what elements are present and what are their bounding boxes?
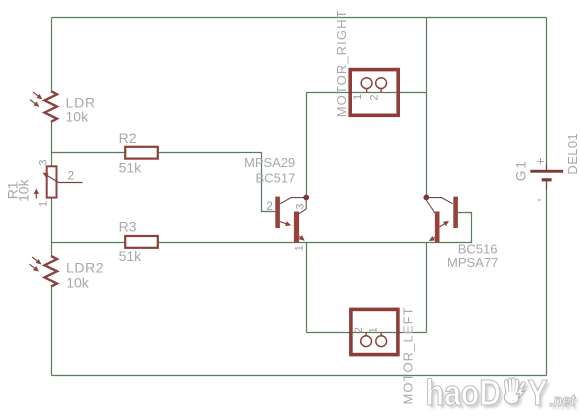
LDR2 light arrow 1	[32, 257, 41, 264]
svg-text:2: 2	[266, 199, 273, 213]
connector MOTOR_LEFT box	[351, 309, 398, 354]
svg-text:2: 2	[353, 327, 365, 333]
battery G1 long plate	[530, 170, 563, 173]
Q2 link node to base bar	[429, 198, 453, 204]
MOTOR_RIGHT pin 2 circle	[376, 78, 387, 89]
svg-text:1: 1	[37, 201, 49, 207]
potentiometer R1 pin 2 lead	[59, 182, 83, 184]
resistor LDR (zigzag)	[45, 91, 58, 122]
svg-text:1: 1	[352, 94, 364, 100]
svg-text:LDR2: LDR2	[66, 259, 104, 275]
svg-text:MOTOR_RIGHT: MOTOR_RIGHT	[334, 9, 349, 117]
watermark hand fingers outline pass	[506, 380, 524, 395]
Q2 inner emitter arrow	[440, 221, 449, 227]
wire node R1/LDR2 to R3	[52, 242, 126, 244]
wire left rail: LDR2 to bottom rail	[51, 287, 53, 376]
MOTOR_LEFT pin 1 stub	[380, 332, 382, 336]
pin number labels	[37, 94, 380, 333]
svg-text:2: 2	[68, 169, 75, 183]
wire left rail: top to LDR	[51, 18, 53, 92]
Q2 junction dot	[423, 195, 429, 201]
LDR light arrow 1	[33, 92, 42, 99]
MOTOR_RIGHT pin 1 circle	[361, 78, 372, 89]
svg-text:G1: G1	[512, 159, 528, 181]
wire left rail: pot R1 to LDR2	[51, 198, 53, 256]
wire node LDR/R1 to R2	[52, 152, 126, 154]
svg-text:haoD: haoD	[426, 374, 502, 414]
Q1 collector junction dot	[303, 195, 309, 201]
svg-text:MPSA29: MPSA29	[244, 155, 295, 170]
Q1 emitter arrow	[299, 236, 304, 240]
MOTOR_RIGHT pin 1 stub	[366, 89, 368, 93]
watermark haoDY.net	[426, 374, 579, 416]
svg-text:51k: 51k	[119, 248, 143, 264]
Q2 second bar (left)	[435, 212, 440, 243]
MOTOR_LEFT pin 2 stub	[365, 332, 367, 336]
svg-text:-: -	[537, 191, 541, 206]
wire motor-left horizontal	[307, 332, 427, 334]
MOTOR_LEFT pin 1 circle	[376, 336, 387, 347]
watermark hand palm	[504, 391, 519, 404]
wire left rail: LDR to pot R1	[51, 122, 53, 167]
svg-text:R2: R2	[119, 130, 137, 146]
potentiometer R1 wiper diagonal arrow	[44, 173, 59, 182]
svg-text:3: 3	[37, 159, 49, 165]
resistor LDR2 (zigzag)	[45, 256, 58, 287]
Q1 base bar	[275, 197, 280, 228]
svg-text:.net: .net	[550, 392, 576, 410]
LDR2 light arrow 2	[30, 264, 39, 271]
watermark hand palm refill	[505, 391, 518, 403]
Q1 second bar	[294, 212, 299, 243]
wire Q2 node down to motor-left	[426, 243, 428, 333]
Q1 inner emitter arrow	[280, 222, 290, 226]
svg-text:1: 1	[294, 245, 306, 251]
battery G1 short plate	[542, 178, 552, 181]
resistor R3 body	[125, 236, 158, 248]
svg-text:3: 3	[295, 203, 307, 209]
LDR light arrow 2	[30, 100, 39, 107]
resistor R2 body	[125, 147, 158, 159]
wire top rail	[52, 17, 547, 19]
wire motor-right horizontal	[307, 92, 427, 94]
wire right rail lower (battery -)	[546, 189, 548, 376]
wire top rail to Q2 vertical	[426, 18, 428, 196]
wire bottom rail	[52, 375, 547, 377]
Q2 base bar (right)	[453, 197, 458, 228]
svg-text:Y: Y	[528, 374, 548, 414]
Q1 node link down to second bar	[299, 200, 306, 214]
svg-text:10k: 10k	[66, 109, 90, 125]
svg-text:DEL01: DEL01	[565, 133, 580, 175]
wire right rail upper (battery +)	[546, 18, 548, 164]
svg-text:MOTOR_LEFT: MOTOR_LEFT	[401, 306, 416, 404]
Q2 emitter arrow	[430, 237, 435, 240]
potentiometer R1 body	[47, 166, 57, 197]
wire Q1 emitter down to motor-left	[306, 243, 308, 333]
MOTOR_LEFT pin 2 circle	[361, 336, 372, 347]
wires group	[52, 18, 547, 376]
svg-text:+: +	[537, 153, 545, 168]
svg-text:MPSA77: MPSA77	[447, 255, 498, 270]
wire R2 to Q1 base (elbow)	[158, 153, 275, 212]
svg-text:R3: R3	[119, 219, 137, 235]
connector MOTOR_RIGHT box	[350, 70, 398, 116]
wire Q1 collector vertical	[306, 93, 308, 196]
svg-text:10k: 10k	[66, 274, 90, 290]
potentiometer R1 up arrow	[35, 190, 37, 199]
wire R3 to Q2 base (long horizontal)	[158, 213, 472, 243]
Q1 collector link to node	[280, 198, 304, 204]
watermark hand fingers white pass	[506, 380, 524, 395]
battery G1 positive pin stub	[546, 164, 548, 170]
svg-text:10k: 10k	[15, 178, 31, 202]
watermark shadow	[428, 377, 578, 416]
battery G1 negative pin stub	[546, 181, 548, 189]
Q2 link node down to left bar	[426, 200, 435, 213]
svg-text:BC517: BC517	[256, 171, 296, 186]
svg-text:1: 1	[368, 327, 380, 333]
transistor Q1 (MPSA29/BC517)	[275, 195, 309, 243]
transistor Q2 (BC516/MPSA77)	[423, 195, 458, 243]
MOTOR_RIGHT pin 2 stub	[380, 89, 382, 93]
watermark main text	[426, 374, 576, 414]
svg-text:2: 2	[368, 94, 380, 100]
watermark hand lightning	[516, 387, 525, 399]
svg-text:51k: 51k	[119, 160, 143, 176]
